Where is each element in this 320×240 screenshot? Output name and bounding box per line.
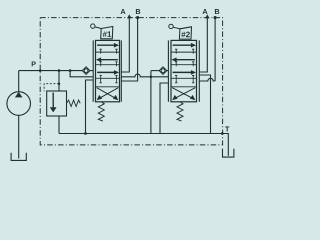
valve V1 (4-position spool, lever operated) with flag #1: [91, 24, 122, 121]
node B1 boundary junction: [136, 16, 139, 19]
label A (valve 2 work port): [203, 9, 208, 14]
valve V2 (4-position spool, lever operated) with flag #2: [168, 24, 199, 121]
node P boundary junction: [39, 69, 42, 72]
wire valve1 left drain: [86, 80, 94, 134]
node carryover junction: [150, 75, 153, 78]
node B2 boundary junction: [214, 16, 217, 19]
pump P1 (fixed displacement): [7, 92, 31, 116]
wire valve1 lower feed: [70, 71, 93, 77]
node boundary T junction: [221, 132, 224, 135]
wire pump outlet riser: [18, 71, 20, 92]
relief valve RV1 spring: [67, 100, 81, 106]
label B (valve 2 work port): [215, 9, 219, 14]
label T (tank return): [225, 127, 229, 132]
wire valve2 B turn: [199, 78, 215, 81]
node lower feed take-off: [69, 69, 72, 72]
label P (pump pressure): [32, 61, 36, 66]
enclosure boundary (dash-dot frame): [40, 18, 222, 145]
wire relief pilot line (dashed): [44, 84, 59, 92]
wire valve2 B line with hop: [214, 17, 216, 81]
wire carryover line with hop: [121, 74, 151, 77]
relief valve RV1 body: [47, 91, 67, 116]
tank T2 (reservoir, right): [223, 149, 234, 158]
wire carryover drain: [150, 77, 152, 134]
wire relief valve riser: [58, 71, 60, 91]
wire relief drain: [58, 116, 60, 134]
wire valve2 right drain: [199, 75, 210, 134]
wire check2 riser: [150, 71, 152, 77]
wire P supply line: [19, 70, 83, 72]
check valve CV2: [151, 67, 169, 75]
node relief take-off: [58, 69, 61, 72]
node valve1 drain junction: [84, 132, 87, 135]
check valve CV1: [82, 67, 93, 75]
node A1 boundary arrow: [127, 14, 131, 18]
wire valve2 left drain: [160, 83, 168, 134]
tank T1 (reservoir, left): [11, 153, 26, 161]
wire valve1 B line: [121, 17, 137, 81]
node A2 boundary arrow: [205, 14, 209, 18]
wire valve1 A line: [121, 17, 129, 72]
wire valve2 A line: [199, 17, 207, 72]
wire pump suction down-pipe: [18, 115, 20, 158]
wire tank return line: [59, 134, 228, 156]
relief valve RV1 flow arrow: [50, 93, 57, 113]
node relief pilot take-off: [58, 82, 61, 85]
label B (valve 1 work port): [136, 9, 140, 14]
label A (valve 1 work port): [121, 9, 126, 14]
wire valve2 lower feed: [151, 76, 169, 78]
